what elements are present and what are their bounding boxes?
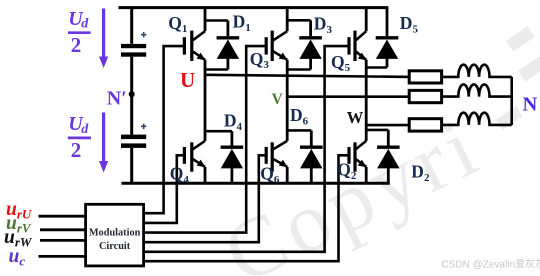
svg-text:CSDN @Zevalin爱灰灰: CSDN @Zevalin爱灰灰 <box>442 257 540 270</box>
svg-text:Circuit: Circuit <box>99 241 131 252</box>
svg-text:Modulation: Modulation <box>89 228 141 239</box>
svg-text:d: d <box>81 122 89 137</box>
svg-text:W: W <box>347 108 364 127</box>
svg-text:2: 2 <box>71 138 82 162</box>
svg-text:U: U <box>180 68 195 92</box>
svg-text:2: 2 <box>71 33 82 57</box>
svg-text:V: V <box>272 91 284 108</box>
svg-text:N′: N′ <box>107 88 127 110</box>
svg-text:N: N <box>523 93 538 115</box>
svg-text:d: d <box>81 17 89 32</box>
